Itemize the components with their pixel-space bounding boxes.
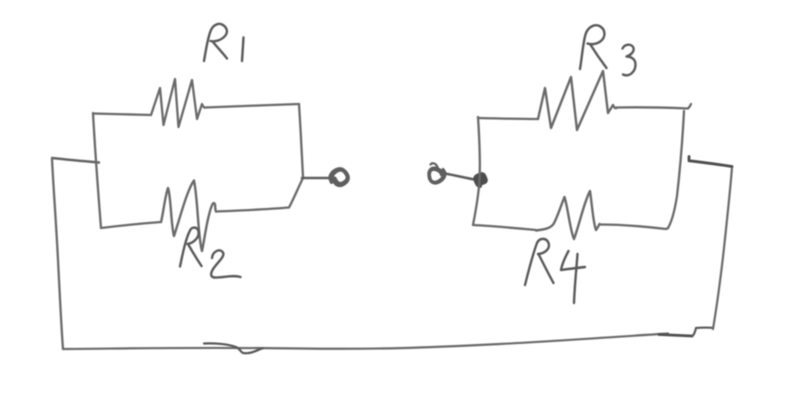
wire: terminal A lead (302, 177, 330, 180)
label R2 subscript 2 (211, 250, 240, 277)
wire: left block bottom wire right segment with riser to node A (216, 178, 303, 212)
resistor R2 (161, 181, 216, 252)
wire: outer loop right vertical rail (713, 167, 732, 329)
wire: bottom rail overlap stroke (204, 343, 263, 353)
label R4 (525, 239, 554, 285)
wire: left block top wire right segment (206, 104, 300, 108)
wire: outer loop left vertical rail (52, 159, 63, 349)
terminal A (330, 169, 348, 186)
label R4 subscript 4 (561, 251, 585, 303)
label R3 subscript 3 (623, 45, 636, 76)
wire: right block bottom wire left segment (473, 225, 536, 230)
wire: outer loop bottom rail (63, 334, 668, 350)
wire: left block right vertical (299, 104, 303, 177)
wire: right block bottom wire right segment (600, 225, 669, 230)
label R1 (204, 24, 227, 61)
resistor R1 (151, 79, 206, 127)
wire: left block left vertical (93, 113, 101, 228)
label R2 (180, 228, 202, 267)
resistor R3 (538, 71, 617, 130)
wire: bottom rail right step up (693, 328, 713, 336)
wire: right block top wire right segment (617, 104, 692, 109)
wire: right block top wire left segment (478, 118, 538, 119)
wire: outer loop left top stub (52, 158, 99, 163)
resistor R4 (536, 191, 600, 239)
label R3 (580, 25, 607, 69)
wire: left block top wire left segment (93, 114, 151, 116)
wire: outer loop right top stub (689, 157, 732, 167)
junction node at B (475, 174, 487, 187)
wire: left block bottom wire left segment (101, 222, 161, 228)
wire: right block right vertical (668, 111, 684, 228)
terminal B (429, 163, 446, 183)
wire: right block left vertical (473, 117, 480, 225)
wire: bottom rail right overlap segment (659, 335, 692, 337)
label R1 subscript 1 (242, 38, 244, 62)
wire: terminal B lead (445, 174, 477, 181)
